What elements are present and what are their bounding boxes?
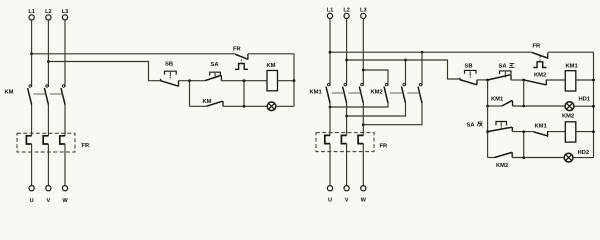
wire FR to rail (right) xyxy=(548,51,594,53)
FR trip symbol (left) xyxy=(235,64,248,70)
wire KM2 col3 drop (right) xyxy=(421,52,423,85)
pushbutton SB NO contact (right) xyxy=(460,78,477,85)
svg-text:U: U xyxy=(30,198,34,204)
switch SA forward NO contact (right) xyxy=(488,75,511,81)
thermal relay FR box (right) xyxy=(316,133,374,152)
FR heater element 2 (left) xyxy=(43,136,48,144)
FR heater element 3 (left) xyxy=(60,136,65,144)
wire SA to coil KM (left) xyxy=(221,80,267,82)
svg-text:HD2: HD2 xyxy=(578,149,590,156)
wire heater 3 to terminal (right) xyxy=(362,144,364,186)
KM2 linkage (right) xyxy=(390,92,420,94)
svg-text:SA: SA xyxy=(499,63,508,70)
junction after SA reverse (right) xyxy=(522,130,525,133)
wire phase 1 to overload (right) xyxy=(329,103,331,135)
FR heater element 1 (left) xyxy=(26,136,31,144)
junction L1 row (right) xyxy=(329,51,332,54)
FR heater element 2 (right) xyxy=(341,135,346,143)
wire phase 2 to overload (left) xyxy=(47,105,49,136)
svg-text:U: U xyxy=(328,198,332,204)
wire L2 drop (right) xyxy=(346,19,348,86)
svg-text:KM1: KM1 xyxy=(535,123,548,129)
terminal V (right) xyxy=(344,186,349,191)
wire heater 2 to terminal (left) xyxy=(47,144,49,186)
svg-text:SA: SA xyxy=(467,121,476,128)
junction coil branch (left) xyxy=(243,79,246,82)
node L1 terminal (left) xyxy=(29,15,34,20)
wire row B from L2 (right) xyxy=(347,60,460,79)
terminal U (left) xyxy=(29,186,34,191)
node L3 terminal (right) xyxy=(361,13,366,18)
contactor KM1 main contact 3 (right) xyxy=(359,83,363,103)
switch SA reverse NO contact (right) xyxy=(488,127,513,132)
junction lamp HD1 branch (right) xyxy=(522,105,525,108)
terminal V (left) xyxy=(46,186,51,191)
junction coil KM2 / rail (right) xyxy=(592,130,595,133)
FR heater element 3 (right) xyxy=(358,135,363,143)
wire phase 3 to overload (right) xyxy=(362,103,364,135)
contactor KM2 main contact 3 (right) xyxy=(418,83,422,103)
junction latch tee (right) xyxy=(486,105,489,108)
lamp HD1 (right) xyxy=(565,102,574,111)
junction lamp HD2 branch (right) xyxy=(522,156,525,159)
wire HD2 to rail (right) xyxy=(573,157,594,159)
wire heater 2 to terminal (right) xyxy=(346,144,348,186)
contactor KM2 main contact 1 (right) xyxy=(384,83,388,103)
junction after SB (left) xyxy=(188,79,191,82)
svg-text:KM2: KM2 xyxy=(534,72,546,79)
contactor KM1 main contact 2 (right) xyxy=(343,83,347,103)
svg-text:FR: FR xyxy=(533,44,542,50)
svg-text:L3: L3 xyxy=(62,9,69,15)
svg-text:KM: KM xyxy=(5,90,14,96)
junction L1/control (left) xyxy=(30,52,33,55)
pushbutton SB NO contact (left) xyxy=(161,79,179,87)
junction HD1 / rail (right) xyxy=(592,105,595,108)
svg-text:HD1: HD1 xyxy=(579,97,591,103)
wire HD2 branch vertical (right) xyxy=(523,132,525,158)
KM linkage (left) xyxy=(33,93,62,95)
svg-text:KM1: KM1 xyxy=(566,64,579,70)
wire HD1 to rail (right) xyxy=(574,105,594,107)
svg-text:L3: L3 xyxy=(360,7,367,13)
wire L3 drop (right) xyxy=(362,19,364,86)
wire phase 3 to overload (left) xyxy=(64,105,66,136)
svg-text:KM1: KM1 xyxy=(310,90,323,96)
wire latch KM2 to lamp HD2 (right) xyxy=(512,157,564,159)
thermal relay FR box (left) xyxy=(17,133,75,152)
svg-text:W: W xyxy=(361,198,367,204)
wire right rail (right) xyxy=(593,52,595,157)
switch SA NO contact (left) xyxy=(205,75,222,81)
wire latch KM2 left (right) xyxy=(488,157,495,159)
svg-text:FR: FR xyxy=(82,143,91,149)
svg-text:KM2: KM2 xyxy=(562,113,574,120)
junction after SB (right) xyxy=(486,79,489,82)
junction lamp branch (left) xyxy=(243,105,246,108)
node L3 terminal (left) xyxy=(62,15,67,20)
junction rung2 feed (right) xyxy=(486,130,489,133)
FR heater element 1 (right) xyxy=(325,135,330,143)
junction merge 1 (right) xyxy=(329,106,332,109)
junction coil KM1 / rail (right) xyxy=(592,79,595,82)
wire phase 1 to overload (left) xyxy=(31,105,33,136)
wire coil KM1 to rail (right) xyxy=(576,79,594,81)
contactor KM1 NO aux contact (right) xyxy=(502,100,513,106)
svg-text:V: V xyxy=(47,198,51,204)
contactor coil KM2 (right) xyxy=(565,122,576,142)
wire KM2 out 2 (right) xyxy=(347,103,406,116)
lamp indicator (left) xyxy=(267,102,276,111)
wire KM2 out 3 (right) xyxy=(363,103,422,125)
svg-text:L2: L2 xyxy=(45,9,52,15)
svg-text:FR: FR xyxy=(380,144,389,150)
junction merge 3 (right) xyxy=(362,123,365,126)
wire KM2 out 1 (right) xyxy=(330,103,388,107)
svg-text:SB: SB xyxy=(165,61,173,68)
svg-text:W: W xyxy=(62,198,68,204)
junction after SA forward (right) xyxy=(522,79,525,82)
svg-text:KM: KM xyxy=(203,99,212,105)
wire KM2 col2 drop (right) xyxy=(405,60,407,86)
wire interlock to coil KM2 (right) xyxy=(548,131,566,133)
junction L3 row (right) xyxy=(362,69,365,72)
junction row A / KM2 col3 (right) xyxy=(421,51,424,54)
svg-text:KM2: KM2 xyxy=(496,162,508,169)
FR actuator link (left) xyxy=(240,59,242,63)
wire latch KM1 left (right) xyxy=(488,105,502,107)
wire latch KM1 branch down (right) xyxy=(487,80,489,106)
wire right rail (left) xyxy=(293,54,295,107)
junction L2/control (left) xyxy=(47,60,50,63)
wire row C from L3 (right) xyxy=(363,70,388,86)
node L2 terminal (left) xyxy=(46,15,51,20)
wire latch branch down (left) xyxy=(189,81,191,107)
label SA forward (right) xyxy=(499,63,515,70)
wire control feed 2 (left) xyxy=(48,62,160,81)
lamp HD2 (right) xyxy=(564,153,573,162)
contactor coil KM (left) xyxy=(267,71,278,91)
svg-text:KM: KM xyxy=(267,63,276,69)
contactor KM main contact 2 (left) xyxy=(44,85,48,105)
contactor KM NO aux contact (left) xyxy=(206,101,223,106)
wire heater 3 to terminal (left) xyxy=(64,144,66,186)
svg-text:V: V xyxy=(345,198,349,204)
wire latch left (left) xyxy=(190,105,207,107)
wire interlock to coil KM1 (right) xyxy=(546,79,565,81)
wire L2 drop (left) xyxy=(47,20,49,87)
node L1 terminal (right) xyxy=(327,13,332,18)
node L2 terminal (right) xyxy=(344,13,349,18)
wire control feed 1 (left) xyxy=(32,53,235,55)
terminal U (right) xyxy=(327,186,332,191)
junction L2 row (right) xyxy=(345,59,348,62)
junction coil/rail (left) xyxy=(293,79,296,82)
switch SA actuator (left) xyxy=(210,72,221,78)
svg-text:SA: SA xyxy=(211,61,220,68)
wire latch KM2 branch down (right) xyxy=(487,132,489,158)
KM1 linkage (right) xyxy=(332,92,361,94)
svg-text:L2: L2 xyxy=(343,7,350,13)
FR NC contact (right) xyxy=(532,52,548,58)
terminal W (left) xyxy=(62,186,67,191)
wire row A from L1 (right) xyxy=(330,51,532,53)
contactor KM main contact 1 (left) xyxy=(28,85,32,105)
contactor coil KM1 (right) xyxy=(565,71,576,91)
svg-text:L1: L1 xyxy=(28,9,35,15)
wire heater 1 to terminal (right) xyxy=(329,144,331,186)
pushbutton SB actuator (left) xyxy=(165,71,177,80)
wire SB to SA (right) xyxy=(477,79,488,81)
wire rung2 feed down (right) xyxy=(487,106,489,132)
contactor KM1 NC interlock (right) xyxy=(534,131,548,137)
wire heater 1 to terminal (left) xyxy=(31,144,33,186)
wire lamp to rail (left) xyxy=(276,105,294,107)
wire L1 drop (left) xyxy=(31,20,33,87)
contactor KM main contact 3 (left) xyxy=(61,85,65,105)
svg-text:SB: SB xyxy=(465,63,473,70)
wire phase 2 to overload (right) xyxy=(346,103,348,135)
contactor KM2 main contact 2 (right) xyxy=(402,83,406,103)
wire latch to lamp (left) xyxy=(223,105,267,107)
terminal W (right) xyxy=(361,186,366,191)
FR NC contact (left) xyxy=(235,54,248,60)
wire SB to SA (left) xyxy=(179,80,205,82)
contactor KM1 main contact 1 (right) xyxy=(326,83,330,103)
wire coil to rail (left) xyxy=(278,80,295,82)
svg-text:FR: FR xyxy=(233,47,242,53)
junction row B / KM2 col2 (right) xyxy=(404,59,407,62)
FR actuator link (right) xyxy=(539,56,541,62)
switch SA forward actuator (right) xyxy=(500,71,512,78)
wire coil KM2 to rail (right) xyxy=(576,131,594,133)
contactor KM2 NC interlock (right) xyxy=(525,80,546,86)
contactor KM2 NO aux contact (right) xyxy=(495,152,513,157)
wire L1 drop (right) xyxy=(329,19,331,86)
junction merge 2 (right) xyxy=(345,115,348,118)
svg-text:KM2: KM2 xyxy=(371,88,383,95)
wire HD1 branch vertical (right) xyxy=(523,80,525,106)
svg-text:L1: L1 xyxy=(327,7,334,13)
wire FR to rail (left) xyxy=(248,53,294,55)
switch SA reverse actuator (right) xyxy=(496,122,507,130)
FR trip symbol (right) xyxy=(533,62,546,68)
wire SA reverse out (right) xyxy=(512,131,533,133)
wire latch KM1 to lamp HD1 (right) xyxy=(513,105,566,107)
label SA reverse (right) xyxy=(467,121,483,128)
svg-text:KM1: KM1 xyxy=(491,97,504,103)
wire lamp branch vertical (left) xyxy=(243,81,245,107)
pushbutton SB actuator (right) xyxy=(465,70,477,79)
wire SA to KM2 interlock (right) xyxy=(511,79,525,81)
wire L3 drop (left) xyxy=(64,20,66,87)
